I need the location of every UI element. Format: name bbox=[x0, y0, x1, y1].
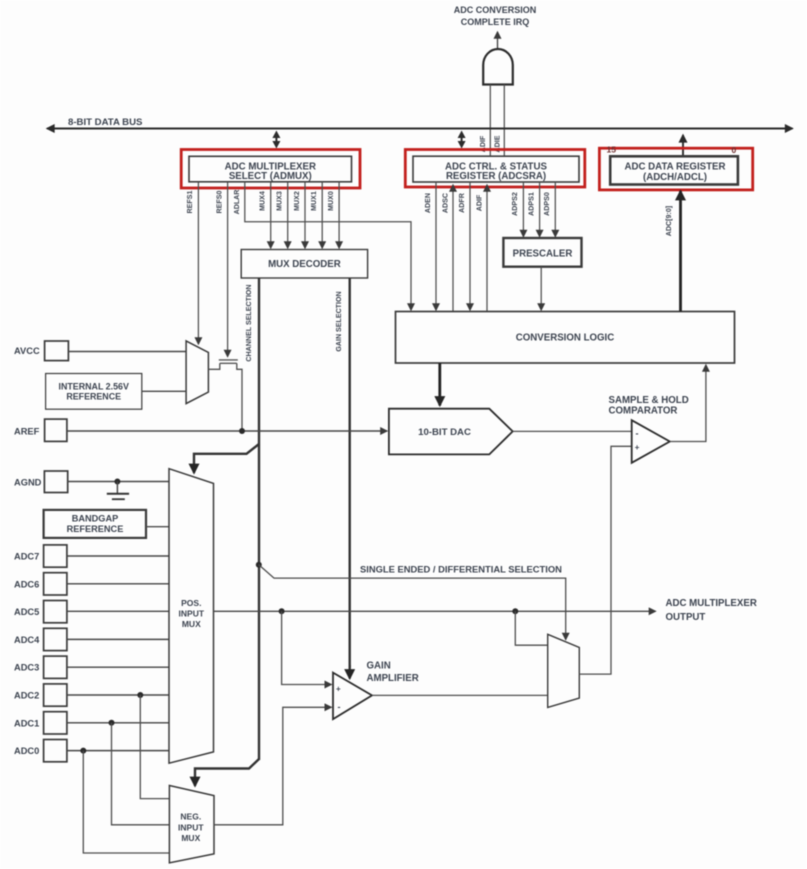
svg-text:AREF: AREF bbox=[14, 427, 40, 437]
svg-text:ADC0: ADC0 bbox=[14, 746, 39, 756]
svg-text:-: - bbox=[636, 429, 639, 439]
wire single ended / differential selection bbox=[259, 565, 566, 640]
wire gain selection bus bbox=[349, 278, 351, 668]
svg-text:ADPS0: ADPS0 bbox=[543, 192, 551, 216]
wire output mux to comparator plus input bbox=[579, 446, 631, 674]
register U4 ADC DATA REGISTER (ADCH/ADCL) bbox=[610, 156, 738, 184]
wire MUX4 bbox=[270, 182, 272, 248]
dac U8 10-BIT DAC bbox=[389, 409, 513, 455]
node AREF junction bbox=[239, 428, 245, 434]
wire ADC data register to bus arrow bbox=[682, 135, 684, 156]
port ADC3 bbox=[14, 656, 67, 678]
wire neg input mux to gain amplifier minus input bbox=[214, 707, 331, 825]
node gain amp positive branch junction bbox=[279, 608, 285, 614]
svg-text:8-BIT DATA BUS: 8-BIT DATA BUS bbox=[68, 117, 143, 128]
wire comparator output to conversion logic bbox=[670, 365, 706, 442]
port ADC0 bbox=[14, 740, 67, 762]
svg-text:ADSC: ADSC bbox=[442, 193, 450, 213]
net label MUX0 bbox=[327, 191, 335, 211]
net label REFS0 bbox=[216, 191, 224, 214]
net label GAIN SELECTION bbox=[335, 291, 343, 351]
node ADC1 junction bbox=[109, 720, 115, 726]
svg-text:ADLAR: ADLAR bbox=[233, 190, 241, 215]
wire gain selection into gain amplifier bbox=[349, 665, 351, 679]
wire MUX2 bbox=[304, 182, 306, 248]
svg-text:MUX1: MUX1 bbox=[310, 191, 318, 211]
ground bbox=[107, 482, 129, 500]
wire prescaler to conversion logic bbox=[540, 267, 542, 310]
node output mux branch junction bbox=[512, 608, 518, 614]
port AGND bbox=[14, 471, 68, 493]
net label REFS1 bbox=[186, 191, 194, 214]
wire conversion logic to 10-bit DAC bbox=[438, 363, 441, 406]
node ADC2 junction bbox=[137, 692, 143, 698]
wire bus to ADMUX double arrow bbox=[272, 131, 280, 149]
wire bus to ADCSRA double arrow bbox=[458, 131, 466, 149]
register U2 ADC MULTIPLEXER SELECT (ADMUX) bbox=[189, 156, 352, 182]
wire ADC4 to mux bbox=[67, 638, 169, 640]
svg-text:NEG.: NEG. bbox=[180, 812, 201, 822]
svg-text:ADC2: ADC2 bbox=[14, 691, 39, 701]
svg-text:ADIF: ADIF bbox=[476, 194, 484, 211]
net label ADIF bbox=[476, 194, 484, 211]
wire ADC0 to mux bbox=[67, 750, 169, 752]
wire ADC2 to mux bbox=[67, 694, 169, 696]
svg-text:CHANNEL SELECTION: CHANNEL SELECTION bbox=[245, 284, 253, 361]
svg-text:GAIN: GAIN bbox=[367, 661, 391, 672]
svg-text:ADPS2: ADPS2 bbox=[511, 192, 519, 216]
svg-text:ADC5: ADC5 bbox=[14, 607, 39, 617]
wire ADC2 branch to neg input mux bbox=[140, 695, 169, 799]
wire channel selection bus bbox=[258, 278, 260, 760]
wire ADC1 branch to neg input mux bbox=[112, 723, 170, 825]
wire ADPS1 bbox=[539, 182, 541, 237]
port ADC2 bbox=[14, 684, 67, 706]
net label ADSC bbox=[442, 193, 450, 213]
svg-text:ADC CONVERSION: ADC CONVERSION bbox=[454, 5, 537, 15]
wire internal reference to mux bbox=[142, 390, 186, 392]
wire branch to gain amplifier plus input bbox=[282, 611, 332, 684]
wire ADIE from ADCSRA to gate bbox=[503, 85, 505, 157]
box U12 BANDGAP REFERENCE bbox=[44, 510, 146, 538]
wire reference mux output to pass transistor bbox=[208, 363, 219, 369]
net label SINGLE ENDED / DIFFERENTIAL SELECTION bbox=[360, 564, 562, 575]
box U11 INTERNAL 2.56V REFERENCE bbox=[46, 374, 142, 410]
svg-text:ADC1: ADC1 bbox=[14, 718, 39, 728]
net label ADPS1 bbox=[527, 192, 535, 216]
port ADC5 bbox=[14, 601, 67, 623]
port ADC1 bbox=[14, 712, 67, 734]
svg-text:MUX: MUX bbox=[182, 619, 201, 629]
wire ADC0 branch to neg input mux bbox=[83, 751, 169, 853]
svg-text:AGND: AGND bbox=[14, 478, 42, 488]
node SAMPLE &amp; HOLD COMPARATOR label bbox=[609, 395, 689, 417]
prescaler U6 PRESCALER bbox=[503, 238, 581, 267]
register U3 ADC CTRL. &amp; STATUS REGISTER (ADCSRA) bbox=[413, 156, 579, 182]
svg-text:GAIN SELECTION: GAIN SELECTION bbox=[335, 291, 343, 351]
svg-text:(ADCH/ADCL): (ADCH/ADCL) bbox=[643, 172, 707, 183]
svg-text:ADC4: ADC4 bbox=[14, 635, 40, 645]
transistor Q1 reference pass gate bbox=[219, 360, 238, 363]
wire ADC multiplexer output bbox=[214, 610, 656, 612]
svg-text:REGISTER (ADCSRA): REGISTER (ADCSRA) bbox=[446, 171, 546, 182]
wire REFS1 bbox=[197, 182, 199, 344]
port ADC4 bbox=[14, 628, 67, 650]
svg-text:REFERENCE: REFERENCE bbox=[67, 524, 124, 534]
mux U16 adc output mux bbox=[548, 634, 580, 707]
svg-text:REFERENCE: REFERENCE bbox=[66, 392, 121, 402]
svg-text:INPUT: INPUT bbox=[178, 822, 204, 832]
wire branch to output mux input bbox=[515, 611, 547, 645]
wire MUX1 bbox=[321, 182, 323, 248]
svg-text:COMPARATOR: COMPARATOR bbox=[609, 406, 678, 417]
wire ADIF to conversion logic bbox=[486, 185, 488, 312]
wire channel selection branch to neg input mux bbox=[195, 759, 259, 786]
svg-text:ADC MULTIPLEXER: ADC MULTIPLEXER bbox=[666, 598, 757, 609]
node single ended selection junction bbox=[256, 562, 262, 568]
port ADC7 bbox=[14, 545, 67, 567]
net label ADLAR bbox=[233, 190, 241, 215]
wire DAC output to comparator minus input bbox=[513, 430, 631, 432]
wire ADLAR to conversion logic bbox=[245, 182, 411, 310]
wire ADEN bbox=[435, 182, 437, 310]
node ADC CONVERSION COMPLETE IRQ label bbox=[454, 5, 537, 27]
net label CHANNEL SELECTION bbox=[245, 284, 253, 361]
wire AREF to 10-bit DAC bbox=[67, 430, 387, 432]
mux U13 positive input mux bbox=[169, 469, 214, 764]
gate U1 interrupt AND gate bbox=[483, 49, 513, 85]
svg-text:REFS0: REFS0 bbox=[216, 191, 224, 214]
node ADC0 junction bbox=[80, 748, 86, 754]
net label ADFR bbox=[458, 193, 466, 213]
wire ADSC bbox=[452, 185, 454, 312]
wire pass transistor to AREF node bbox=[237, 363, 242, 431]
wire AVCC to reference mux bbox=[68, 351, 186, 353]
svg-text:COMPLETE IRQ: COMPLETE IRQ bbox=[461, 17, 530, 27]
svg-text:PRESCALER: PRESCALER bbox=[513, 249, 573, 260]
wire REFS0 bbox=[227, 182, 229, 357]
svg-text:15: 15 bbox=[607, 145, 617, 155]
wire ADC1 to mux bbox=[67, 722, 169, 724]
node AGND junction bbox=[114, 479, 120, 485]
wire ADC7 to mux bbox=[67, 555, 169, 557]
svg-text:ADC7: ADC7 bbox=[14, 552, 39, 562]
mux U10 reference selection mux bbox=[186, 341, 208, 404]
logic U7 CONVERSION LOGIC bbox=[396, 312, 735, 364]
svg-text:MUX2: MUX2 bbox=[293, 191, 301, 211]
mux U14 negative input mux bbox=[169, 786, 214, 863]
net label ADC MULTIPLEXER OUTPUT bbox=[666, 598, 757, 623]
svg-text:0: 0 bbox=[732, 145, 737, 155]
decoder U5 MUX DECODER bbox=[241, 250, 367, 279]
svg-text:AMPLIFIER: AMPLIFIER bbox=[367, 673, 419, 684]
svg-text:CONVERSION LOGIC: CONVERSION LOGIC bbox=[516, 333, 615, 344]
net label MUX1 bbox=[310, 191, 318, 211]
wire ADC5 to mux bbox=[67, 610, 169, 612]
svg-text:POS.: POS. bbox=[181, 598, 201, 608]
wire MUX0 bbox=[338, 182, 340, 248]
svg-text:ADC[9:0]: ADC[9:0] bbox=[665, 206, 673, 236]
port ADC6 bbox=[14, 573, 67, 595]
svg-text:MUX: MUX bbox=[181, 833, 200, 843]
svg-text:SAMPLE & HOLD: SAMPLE & HOLD bbox=[609, 395, 689, 406]
svg-text:SINGLE ENDED / DIFFERENTIAL SE: SINGLE ENDED / DIFFERENTIAL SELECTION bbox=[360, 564, 562, 575]
wire ADPS2 bbox=[522, 182, 524, 237]
net label 8-BIT DATA BUS bbox=[68, 117, 143, 128]
wire bandgap to pos input mux bbox=[146, 526, 169, 528]
svg-text:10-BIT DAC: 10-BIT DAC bbox=[418, 427, 471, 438]
register U2 ADMUX red highlight box bbox=[181, 150, 360, 189]
comparator U9 sample and hold comparator bbox=[632, 420, 670, 463]
svg-text:ADFR: ADFR bbox=[458, 193, 466, 213]
pin number 0 bbox=[732, 145, 737, 155]
svg-text:INPUT: INPUT bbox=[179, 609, 205, 619]
wire 8-bit data bus bbox=[47, 128, 793, 130]
svg-text:MUX4: MUX4 bbox=[259, 191, 267, 211]
svg-text:+: + bbox=[336, 685, 341, 694]
wire ADFR bbox=[469, 182, 471, 310]
svg-text:INTERNAL 2.56V: INTERNAL 2.56V bbox=[59, 382, 129, 392]
net label MUX3 bbox=[276, 191, 284, 211]
net label ADC[9:0] bbox=[665, 206, 673, 236]
net label ADEN bbox=[424, 193, 432, 213]
wire gain amplifier output to output mux bbox=[372, 694, 548, 696]
svg-text:AVCC: AVCC bbox=[14, 346, 40, 356]
svg-text:MUX0: MUX0 bbox=[327, 191, 335, 211]
svg-text:MUX DECODER: MUX DECODER bbox=[268, 259, 341, 270]
port AREF bbox=[14, 419, 67, 441]
svg-text:SELECT (ADMUX): SELECT (ADMUX) bbox=[229, 171, 312, 182]
svg-text:ADC3: ADC3 bbox=[14, 663, 39, 673]
svg-text:REFS1: REFS1 bbox=[186, 191, 194, 214]
net label MUX2 bbox=[293, 191, 301, 211]
wire channel selection branch to pos input mux bbox=[194, 444, 259, 473]
wire ADC3 to mux bbox=[67, 666, 169, 668]
wire ADC[9:0] result bus to data register bbox=[679, 191, 682, 312]
register U3 ADCSRA red highlight box bbox=[405, 150, 585, 188]
net label MUX4 bbox=[259, 191, 267, 211]
svg-text:ADC6: ADC6 bbox=[14, 579, 39, 589]
svg-text:OUTPUT: OUTPUT bbox=[666, 612, 706, 623]
svg-text:+: + bbox=[635, 443, 640, 452]
register U4 ADC data register red highlight box bbox=[599, 148, 752, 190]
wire ADIF from ADCSRA to gate bbox=[489, 85, 491, 157]
net label ADPS0 bbox=[543, 192, 551, 216]
svg-text:MUX3: MUX3 bbox=[276, 191, 284, 211]
pin number 15 bbox=[607, 145, 617, 155]
wire MUX3 bbox=[287, 182, 289, 248]
net label ADPS2 bbox=[511, 192, 519, 216]
port AVCC bbox=[14, 341, 68, 361]
wire ADC6 to mux bbox=[67, 583, 169, 585]
svg-text:-: - bbox=[338, 702, 341, 712]
wire AGND to pos input mux bbox=[68, 481, 169, 483]
svg-text:ADEN: ADEN bbox=[424, 193, 432, 213]
net label ADIE bbox=[493, 135, 501, 152]
svg-text:ADPS1: ADPS1 bbox=[527, 192, 535, 216]
net label ADIF bbox=[479, 135, 487, 152]
wire IRQ output arrow bbox=[497, 32, 499, 49]
amplifier U15 gain amplifier bbox=[333, 673, 372, 720]
node GAIN AMPLIFIER label bbox=[367, 661, 419, 685]
svg-text:BANDGAP: BANDGAP bbox=[72, 513, 118, 523]
wire ADPS0 bbox=[554, 182, 556, 237]
